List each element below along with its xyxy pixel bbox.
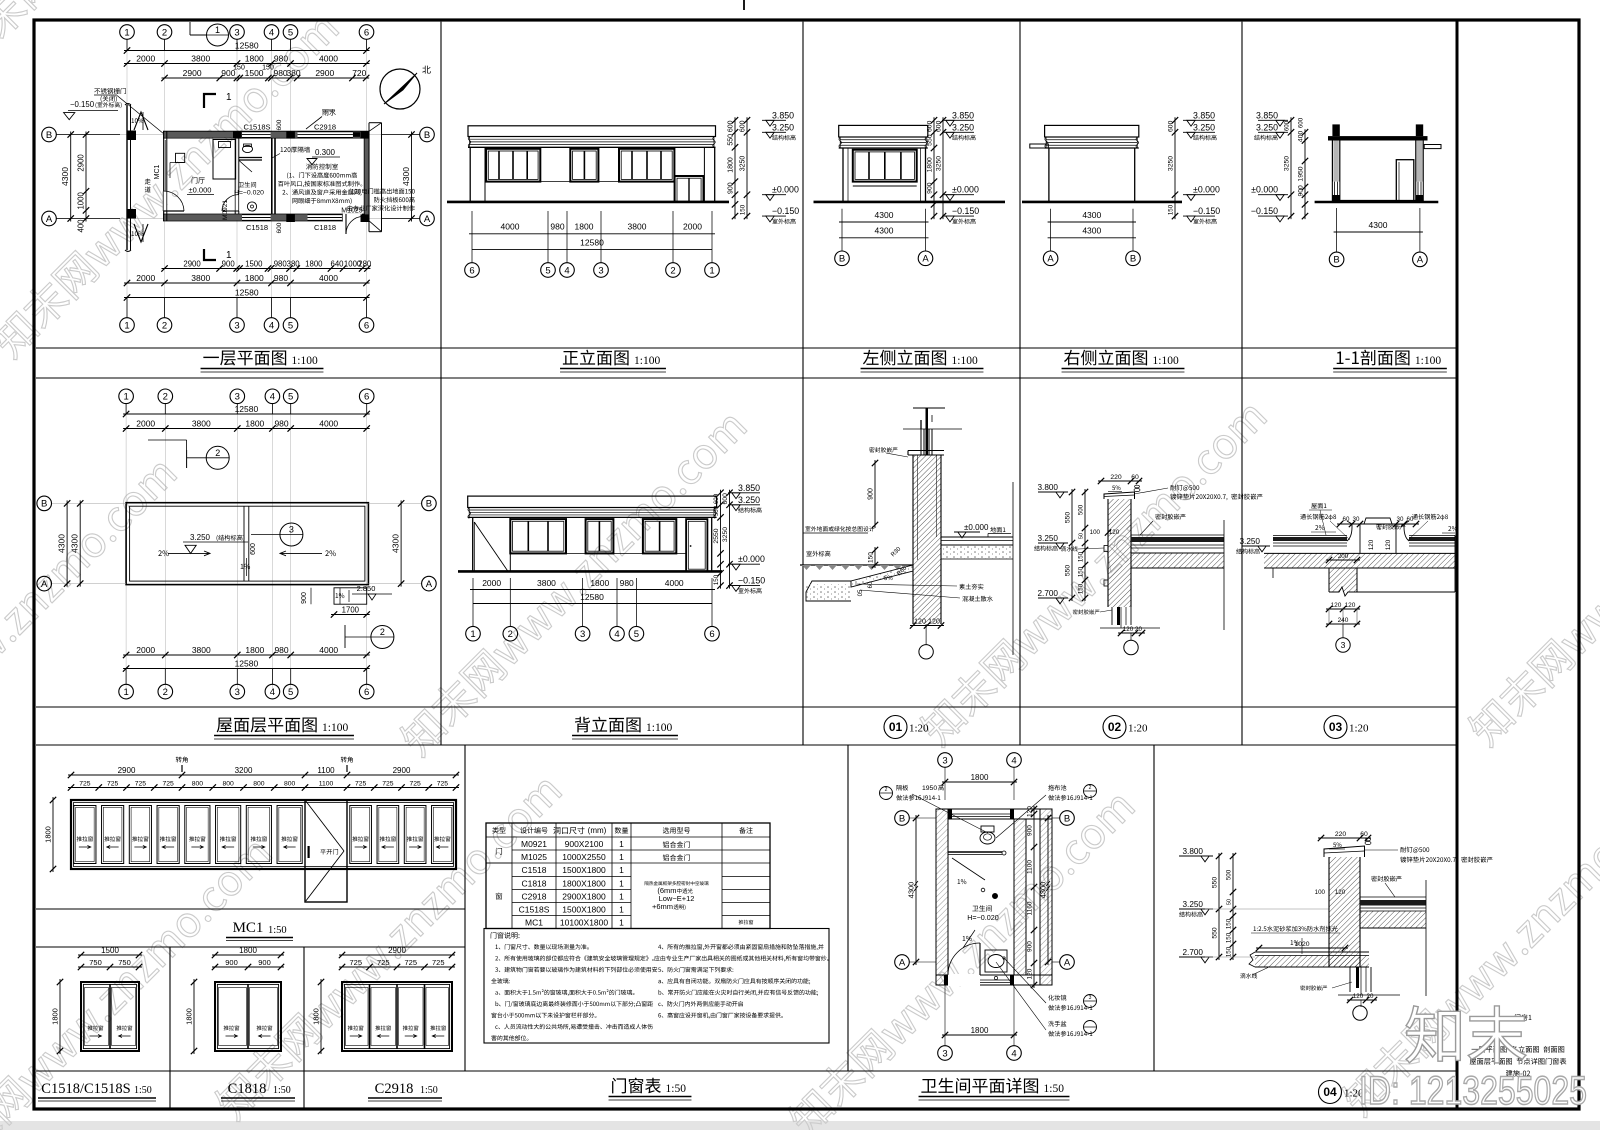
svg-text:B: B bbox=[1064, 813, 1070, 824]
front right dim columns bbox=[734, 117, 736, 219]
joint dims 03 bbox=[1337, 523, 1419, 525]
right wall bbox=[363, 131, 365, 221]
washbasin bbox=[985, 950, 1007, 972]
notes box bbox=[484, 929, 829, 1044]
svg-text:640: 640 bbox=[331, 259, 345, 268]
svg-text:01: 01 bbox=[889, 720, 903, 734]
title 03 bbox=[1324, 716, 1347, 739]
porch right note 3 lines bbox=[349, 188, 350, 194]
svg-text:−0.150: −0.150 bbox=[70, 100, 95, 109]
panel title bbox=[1337, 352, 1344, 364]
svg-text:6: 6 bbox=[364, 392, 369, 403]
svg-text:3200: 3200 bbox=[235, 766, 253, 775]
walls left-elev bbox=[842, 148, 844, 202]
svg-text:800: 800 bbox=[284, 780, 296, 787]
window W1 front bbox=[486, 149, 540, 182]
svg-text:5: 5 bbox=[288, 392, 293, 403]
svg-text:550: 550 bbox=[713, 505, 720, 516]
window W2 front bbox=[570, 149, 598, 182]
svg-text:120: 120 bbox=[1027, 968, 1034, 979]
desk furniture room1 bbox=[213, 140, 236, 180]
svg-text:4300: 4300 bbox=[57, 534, 67, 553]
svg-text:4000: 4000 bbox=[319, 53, 338, 63]
svg-text:12580: 12580 bbox=[235, 40, 259, 50]
title 02 bbox=[1103, 716, 1126, 739]
window C1818 band bottom bbox=[308, 215, 342, 221]
svg-text:1800: 1800 bbox=[185, 1008, 194, 1025]
toilet left dim 4300 bbox=[915, 815, 917, 965]
svg-text:120: 120 bbox=[1331, 602, 1342, 609]
svg-text:3: 3 bbox=[1089, 995, 1092, 1001]
svg-text:550: 550 bbox=[728, 134, 735, 146]
svg-text:3.250: 3.250 bbox=[1183, 900, 1204, 909]
roof band back bbox=[468, 496, 717, 507]
svg-text:3.250: 3.250 bbox=[1256, 122, 1278, 132]
svg-text:120: 120 bbox=[1345, 602, 1356, 609]
svg-text:50: 50 bbox=[1079, 533, 1085, 539]
svg-text:100: 100 bbox=[1090, 529, 1101, 536]
svg-text:3.250: 3.250 bbox=[738, 495, 760, 505]
svg-text:600: 600 bbox=[276, 222, 283, 233]
svg-text:3: 3 bbox=[598, 265, 603, 276]
svg-text:1: 1 bbox=[709, 265, 714, 276]
cap leader text 02 bbox=[1170, 485, 1176, 491]
axis circle 04 bbox=[1360, 1000, 1362, 1007]
section cut mark bottom bbox=[204, 249, 216, 260]
svg-text:4: 4 bbox=[270, 687, 275, 698]
svg-text:600: 600 bbox=[1284, 120, 1291, 131]
svg-text:1:50: 1:50 bbox=[273, 1085, 291, 1096]
svg-text:3.250: 3.250 bbox=[1240, 537, 1261, 546]
roof outline outer bbox=[126, 503, 368, 585]
toilet top bubbles bbox=[938, 753, 953, 768]
svg-text:20: 20 bbox=[1135, 626, 1142, 633]
left wall window gap bbox=[1333, 182, 1339, 196]
svg-text:4300: 4300 bbox=[391, 534, 401, 553]
gate swing symbol top bbox=[134, 112, 148, 130]
toilet door arc bbox=[979, 943, 981, 975]
svg-text:900: 900 bbox=[927, 182, 934, 194]
svg-text:C1818: C1818 bbox=[314, 223, 336, 232]
top dimension row detail bbox=[162, 77, 370, 79]
svg-text:4000: 4000 bbox=[665, 578, 684, 588]
svg-text:3: 3 bbox=[942, 755, 947, 766]
MC1 top dim row1 bbox=[68, 774, 459, 776]
svg-text:10100X1800: 10100X1800 bbox=[560, 918, 608, 928]
bottom dim 12580 bbox=[124, 297, 370, 299]
svg-text:980: 980 bbox=[274, 418, 288, 428]
room label 卫生间 bbox=[238, 182, 244, 187]
svg-text:400: 400 bbox=[77, 219, 86, 233]
svg-text:3250: 3250 bbox=[1168, 156, 1175, 171]
svg-text:1800: 1800 bbox=[245, 273, 264, 283]
room label 门厅 bbox=[192, 177, 198, 183]
toilet top wall bbox=[936, 808, 1052, 810]
toilet axis B lines bbox=[909, 817, 936, 819]
render note 04 bbox=[1254, 926, 1256, 931]
svg-text:A: A bbox=[41, 579, 48, 590]
MC1 door 平开门 bbox=[305, 800, 347, 902]
svg-text:1:100: 1:100 bbox=[322, 722, 348, 734]
MC1 panes section1 bbox=[74, 806, 96, 864]
toilet leader top-left bbox=[880, 787, 893, 800]
svg-text:3.250: 3.250 bbox=[190, 533, 211, 542]
svg-text:2900X1800: 2900X1800 bbox=[562, 892, 606, 902]
joint curbs 03 bbox=[1347, 524, 1360, 553]
top grid bubbles bbox=[120, 25, 135, 40]
roof slab 02 bbox=[1131, 534, 1224, 536]
slope label 10% upper bbox=[132, 118, 135, 123]
svg-text:4000: 4000 bbox=[319, 273, 338, 283]
svg-text:5: 5 bbox=[288, 687, 293, 698]
shower slope bbox=[952, 858, 985, 880]
svg-text:B: B bbox=[426, 499, 432, 510]
canopy ledge right-elev bbox=[1030, 144, 1049, 148]
MC1 corner labels bbox=[176, 757, 182, 763]
svg-text:3: 3 bbox=[580, 629, 585, 640]
section markers left bbox=[1258, 119, 1288, 121]
svg-text:120: 120 bbox=[928, 618, 940, 625]
svg-text:4: 4 bbox=[269, 320, 274, 331]
roof bottom dim 12580 bbox=[123, 668, 370, 670]
svg-text:1800: 1800 bbox=[245, 418, 264, 428]
svg-text:150: 150 bbox=[233, 65, 245, 72]
svg-text:C1518: C1518 bbox=[246, 223, 268, 232]
svg-text:1950: 1950 bbox=[922, 785, 937, 792]
toilet door opening bottom bbox=[948, 974, 980, 986]
svg-text:150: 150 bbox=[1078, 583, 1085, 594]
svg-text:980: 980 bbox=[620, 578, 634, 588]
section mark circle 2 lower bbox=[371, 626, 394, 649]
svg-text:150: 150 bbox=[1226, 918, 1233, 929]
panel: window C1518 bbox=[78, 954, 142, 956]
svg-text:4300: 4300 bbox=[907, 882, 916, 899]
roof drain box bottom right bbox=[334, 588, 367, 604]
roof bottom dim spans bbox=[123, 654, 370, 656]
north arrow bbox=[380, 69, 420, 109]
svg-text:1800: 1800 bbox=[245, 645, 264, 655]
svg-text:3.250: 3.250 bbox=[772, 122, 794, 132]
svg-text:3250: 3250 bbox=[936, 156, 943, 171]
fire room notes bbox=[306, 164, 312, 170]
axis circle 01 bbox=[925, 624, 927, 645]
svg-text:1: 1 bbox=[619, 879, 624, 889]
svg-text:M0921: M0921 bbox=[521, 839, 547, 849]
svg-text:800: 800 bbox=[222, 780, 234, 787]
dim 900 vertical 01 bbox=[874, 460, 876, 528]
markers 02 bbox=[1038, 491, 1068, 493]
svg-text:(mm): (mm) bbox=[588, 826, 607, 835]
svg-text:120: 120 bbox=[1335, 889, 1346, 896]
wall below ledge 04 bbox=[1349, 967, 1351, 992]
svg-text:3.250: 3.250 bbox=[952, 122, 974, 132]
svg-text:1700: 1700 bbox=[342, 605, 360, 614]
svg-text:A: A bbox=[424, 214, 431, 225]
cap leader 04 bbox=[1400, 847, 1406, 853]
ground line front bbox=[447, 201, 729, 204]
apron curb step 01 bbox=[806, 581, 851, 601]
svg-text:−0.150: −0.150 bbox=[738, 576, 765, 586]
svg-text:120: 120 bbox=[1027, 806, 1034, 817]
grid verticals (thin) bbox=[126, 39, 128, 318]
title strip divider bbox=[1456, 20, 1459, 1109]
svg-text:1:50: 1:50 bbox=[420, 1085, 438, 1096]
left-elev dim columns bbox=[933, 117, 935, 219]
panel title bbox=[217, 718, 233, 733]
below dims 03 bbox=[1326, 608, 1360, 610]
svg-text:900X2100: 900X2100 bbox=[565, 839, 604, 849]
window C1518S band top bbox=[242, 132, 271, 138]
svg-text:3.800: 3.800 bbox=[1038, 483, 1059, 492]
window C1518 band bottom bbox=[242, 215, 271, 221]
svg-text:1: 1 bbox=[619, 918, 624, 928]
svg-text:800: 800 bbox=[253, 780, 265, 787]
window W1 back bbox=[510, 519, 566, 553]
right wall window gap bbox=[1416, 182, 1422, 196]
svg-text:2000: 2000 bbox=[136, 273, 155, 283]
roof slope 1% bbox=[241, 564, 244, 569]
svg-text:2: 2 bbox=[162, 320, 167, 331]
svg-text:2.700: 2.700 bbox=[1183, 948, 1204, 957]
svg-text:2900: 2900 bbox=[393, 766, 411, 775]
svg-text:12580: 12580 bbox=[235, 287, 259, 297]
svg-text:2900: 2900 bbox=[118, 766, 136, 775]
svg-text:2: 2 bbox=[1089, 785, 1092, 791]
svg-text:980: 980 bbox=[274, 259, 288, 268]
panel title bbox=[863, 350, 879, 365]
svg-text:150: 150 bbox=[713, 574, 720, 585]
marker 3.250 03 bbox=[1242, 545, 1270, 547]
svg-text:±0.000: ±0.000 bbox=[1251, 185, 1278, 195]
roof band left-elev bbox=[839, 125, 928, 137]
top dimension row 12580 bbox=[124, 50, 370, 52]
svg-text:1950: 1950 bbox=[1298, 166, 1305, 181]
svg-text:980: 980 bbox=[274, 273, 288, 283]
title strip texts bbox=[1515, 1014, 1521, 1020]
svg-text:600: 600 bbox=[1168, 120, 1175, 132]
svg-text:30: 30 bbox=[1397, 516, 1404, 523]
roof slope 2% right bbox=[325, 550, 328, 556]
rain leader 雨水 bbox=[322, 110, 328, 116]
svg-text:725: 725 bbox=[79, 780, 91, 787]
slope label 10% lower bbox=[132, 231, 135, 236]
svg-text:±0.000: ±0.000 bbox=[772, 185, 799, 195]
svg-text:220: 220 bbox=[1110, 474, 1122, 481]
ground line section bbox=[1315, 201, 1439, 204]
svg-text:5: 5 bbox=[288, 320, 293, 331]
svg-text:150: 150 bbox=[1226, 946, 1233, 957]
svg-text:A: A bbox=[426, 579, 433, 590]
svg-text:1800: 1800 bbox=[305, 259, 323, 268]
toilet right dims bbox=[1033, 806, 1035, 988]
svg-text:6: 6 bbox=[364, 27, 369, 38]
toilet bottom wall bbox=[936, 974, 1052, 976]
svg-text:1: 1 bbox=[470, 629, 475, 640]
svg-text:1800: 1800 bbox=[971, 773, 989, 782]
svg-text:2000: 2000 bbox=[136, 53, 155, 63]
svg-text:MC1: MC1 bbox=[154, 165, 161, 180]
column grid5 A bbox=[286, 214, 295, 222]
MC1 outer frame bbox=[71, 800, 456, 869]
svg-text:C1818: C1818 bbox=[521, 879, 546, 889]
svg-text:3250: 3250 bbox=[1284, 156, 1291, 171]
svg-text:C1518: C1518 bbox=[521, 865, 546, 875]
top dimension row spans bbox=[124, 63, 370, 65]
door front bbox=[675, 176, 704, 202]
svg-text:550: 550 bbox=[1212, 927, 1219, 939]
svg-text:150: 150 bbox=[740, 204, 747, 215]
svg-text:C2918: C2918 bbox=[521, 892, 546, 902]
svg-text:900: 900 bbox=[1027, 825, 1034, 836]
svg-text:4: 4 bbox=[1011, 755, 1016, 766]
svg-text:500: 500 bbox=[1226, 869, 1233, 880]
panel title bbox=[203, 357, 219, 358]
svg-text:1:100: 1:100 bbox=[646, 722, 672, 734]
svg-text:B: B bbox=[839, 254, 845, 265]
svg-text:3800: 3800 bbox=[537, 578, 556, 588]
svg-text:725: 725 bbox=[107, 780, 119, 787]
svg-text:M0921: M0921 bbox=[222, 200, 229, 220]
svg-text:3.850: 3.850 bbox=[1193, 110, 1215, 120]
svg-text:02: 02 bbox=[1108, 720, 1122, 734]
left wall section bbox=[1332, 124, 1339, 136]
svg-text:3: 3 bbox=[289, 525, 294, 535]
svg-text:400: 400 bbox=[1298, 131, 1305, 143]
drip label 04 bbox=[1240, 973, 1245, 978]
svg-text:C2918: C2918 bbox=[375, 1081, 414, 1097]
svg-text:1:50: 1:50 bbox=[666, 1083, 687, 1095]
svg-text:5: 5 bbox=[634, 629, 639, 640]
svg-text:4300: 4300 bbox=[1082, 226, 1101, 236]
svg-text:725: 725 bbox=[382, 780, 394, 787]
svg-text:3: 3 bbox=[234, 27, 239, 38]
svg-text:3.800: 3.800 bbox=[1183, 847, 1204, 856]
svg-text:4000: 4000 bbox=[501, 222, 520, 232]
panel divider lines bbox=[36, 347, 1456, 349]
parapet cap 02 bbox=[1104, 492, 1135, 499]
slab leader 02 bbox=[1155, 514, 1161, 520]
svg-text:2900: 2900 bbox=[388, 946, 406, 955]
svg-text:4300: 4300 bbox=[1039, 882, 1048, 899]
svg-text:A: A bbox=[1064, 957, 1071, 968]
svg-text:A: A bbox=[899, 957, 906, 968]
roof slab section bbox=[1328, 136, 1428, 140]
svg-text:1800: 1800 bbox=[245, 53, 264, 63]
svg-text:725: 725 bbox=[162, 780, 174, 787]
toilet wall end blocks bbox=[948, 809, 952, 819]
window left-elev bbox=[853, 150, 917, 182]
roof left dims 4300 bbox=[66, 500, 68, 586]
roof grid verticals bbox=[125, 403, 127, 690]
porch corner diagonals bbox=[369, 123, 382, 132]
window W2 back bbox=[586, 519, 614, 553]
walls front bbox=[469, 147, 471, 202]
back markers bbox=[728, 492, 760, 494]
svg-text:725: 725 bbox=[349, 958, 362, 967]
back bubbles bbox=[466, 626, 481, 641]
window sill line front bbox=[486, 181, 674, 183]
svg-text:200: 200 bbox=[1338, 553, 1349, 560]
window W3 front bbox=[619, 149, 674, 182]
panel: window C1818 bbox=[212, 954, 284, 956]
svg-text:1: 1 bbox=[619, 892, 624, 902]
svg-text:3800: 3800 bbox=[191, 53, 210, 63]
svg-text:+6mm: +6mm bbox=[652, 902, 673, 911]
gate label 不锈钢栅门 bbox=[94, 88, 100, 94]
svg-text:B: B bbox=[1130, 254, 1136, 265]
gate swing symbol bottom bbox=[134, 224, 148, 242]
gate post A bbox=[127, 209, 137, 219]
toilet fixture wc bbox=[243, 145, 253, 152]
svg-text:1800: 1800 bbox=[728, 157, 735, 173]
svg-text:20: 20 bbox=[1367, 993, 1374, 1000]
svg-text:1: 1 bbox=[619, 905, 624, 915]
svg-text:ID: 1213255025: ID: 1213255025 bbox=[1359, 1069, 1587, 1113]
svg-text:1:20: 1:20 bbox=[909, 723, 929, 735]
svg-text:±0.000: ±0.000 bbox=[964, 523, 989, 532]
door back bbox=[686, 519, 707, 571]
svg-text:600: 600 bbox=[740, 120, 747, 132]
svg-text:MC1: MC1 bbox=[233, 920, 264, 936]
toilet room label bbox=[972, 906, 978, 912]
window top break 01 bbox=[903, 428, 962, 430]
roof band right-elev bbox=[1045, 125, 1139, 137]
svg-text:1100: 1100 bbox=[317, 766, 335, 775]
roof drain dim 1700 bbox=[331, 614, 370, 616]
svg-text:1: 1 bbox=[124, 27, 129, 38]
walls right-elev bbox=[1048, 148, 1050, 202]
svg-text:1800: 1800 bbox=[51, 1008, 60, 1025]
svg-text:2: 2 bbox=[163, 392, 168, 403]
svg-text:2000: 2000 bbox=[136, 645, 155, 655]
section bubbles bbox=[1329, 252, 1344, 267]
svg-text:1: 1 bbox=[215, 25, 220, 35]
svg-text:800: 800 bbox=[192, 780, 204, 787]
left wall MC1 (window-door strip) bbox=[163, 131, 165, 221]
toilet slope 1% bbox=[963, 936, 966, 941]
toilet washbasin bbox=[247, 202, 256, 211]
svg-text:4300: 4300 bbox=[60, 167, 70, 186]
svg-text:1: 1 bbox=[619, 865, 624, 875]
svg-text:C1518/C1518S: C1518/C1518S bbox=[41, 1081, 130, 1097]
parapet cap 04 bbox=[1324, 846, 1365, 857]
svg-text:1500: 1500 bbox=[101, 946, 119, 955]
svg-text:1000: 1000 bbox=[77, 192, 86, 210]
canopy section right bbox=[1424, 145, 1441, 149]
svg-text:0.300: 0.300 bbox=[315, 148, 336, 157]
section mark circle 3 roof bbox=[280, 523, 303, 546]
svg-text:2: 2 bbox=[885, 787, 888, 793]
svg-text:4300: 4300 bbox=[875, 210, 894, 220]
svg-text:4300: 4300 bbox=[401, 167, 411, 186]
svg-text:6: 6 bbox=[364, 687, 369, 698]
svg-text:3: 3 bbox=[942, 1048, 947, 1059]
svg-text:−0.150: −0.150 bbox=[1251, 206, 1278, 216]
roof ridge double line bbox=[243, 506, 245, 581]
axis A line bbox=[56, 218, 420, 220]
svg-text:900: 900 bbox=[868, 488, 875, 500]
svg-text:1: 1 bbox=[123, 392, 128, 403]
svg-text:2000: 2000 bbox=[482, 578, 501, 588]
svg-text:B: B bbox=[41, 499, 47, 510]
svg-text:550: 550 bbox=[1065, 512, 1072, 524]
svg-text:1500: 1500 bbox=[245, 259, 263, 268]
svg-text:12580: 12580 bbox=[235, 404, 259, 414]
left B A bubbles bbox=[57, 134, 121, 136]
svg-text:4: 4 bbox=[564, 265, 569, 276]
panel title bbox=[1064, 350, 1079, 366]
svg-text:1:20: 1:20 bbox=[1128, 723, 1148, 735]
